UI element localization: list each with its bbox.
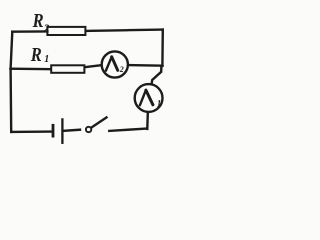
svg-text:R: R (30, 44, 42, 66)
svg-text:2: 2 (43, 23, 50, 35)
svg-text:R: R (32, 10, 44, 32)
svg-text:1: 1 (44, 54, 49, 65)
svg-text:1: 1 (157, 99, 162, 109)
svg-text:2: 2 (119, 65, 124, 74)
